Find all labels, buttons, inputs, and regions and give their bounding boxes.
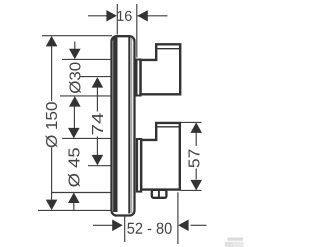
dim D30 tail above — [74, 42, 76, 51]
dim D150 line upper — [51, 45, 53, 101]
dim D30 bottom extension — [60, 95, 112, 97]
svg-text:74: 74 — [90, 112, 107, 135]
bottom handle flange (D45) — [136, 138, 142, 193]
dim 74 bottom extension — [88, 165, 112, 167]
top handle grip seam — [156, 48, 180, 50]
watermark — [225, 237, 244, 247]
bottom handle tab divider — [158, 190, 160, 198]
arrow 16 left — [106, 10, 117, 21]
dim 52-80 tail right — [191, 224, 207, 226]
dim D150 top extension — [42, 35, 112, 37]
dim D30-D45 connector line — [73, 106, 75, 129]
dim 57 top extension — [181, 121, 202, 123]
arrow 52-80 right — [112, 220, 123, 232]
dim D150 line lower — [51, 148, 53, 202]
dim 57 bottom extension — [181, 189, 202, 191]
arrow 16 right — [137, 10, 148, 21]
arrow 74 down — [92, 155, 104, 166]
arrow 57 up — [190, 122, 202, 132]
dim 16 tail left — [88, 15, 107, 17]
bottom handle safety tab — [152, 190, 167, 198]
arrow D150 down — [46, 200, 58, 211]
plate front face shading — [131, 38, 133, 213]
dim 57 line upper — [195, 132, 197, 147]
dim D45 bottom extension — [52, 192, 111, 194]
arrow D30 up — [69, 96, 81, 107]
arrow 52-80 left — [178, 220, 189, 232]
svg-text:52 - 80: 52 - 80 — [127, 221, 173, 238]
dim 57 line lower — [195, 169, 197, 180]
svg-text:57: 57 — [187, 148, 204, 168]
svg-text:16: 16 — [116, 9, 132, 25]
svg-text:Ø 45: Ø 45 — [66, 147, 83, 187]
plate back inner line — [113, 37, 117, 212]
dim D45 top extension — [62, 137, 113, 139]
arrow D30 down — [69, 49, 81, 60]
dim D30 top extension — [62, 58, 112, 60]
top handle body and grip — [141, 44, 181, 94]
dim 16 tail right — [138, 15, 168, 17]
bottom handle body and grip — [141, 123, 180, 190]
dim 16 extension line left — [116, 4, 118, 35]
dim 52-80 tail left — [93, 224, 113, 226]
dim 74 line upper — [96, 87, 98, 112]
dim D45 tail below — [73, 202, 75, 211]
escutcheon plate side view — [112, 36, 135, 215]
dim 16 extension line right — [136, 4, 138, 58]
dim 52-80 extension left — [124, 217, 126, 243]
arrow D45 down — [68, 128, 80, 138]
dim 74 top extension — [80, 76, 112, 78]
top handle flange (D30) — [135, 59, 141, 97]
arrow D45 up — [68, 193, 80, 204]
arrow 74 up — [92, 77, 104, 88]
dim D150 bottom extension — [38, 209, 111, 211]
dim 74 line lower — [96, 137, 98, 157]
arrow D150 up — [46, 36, 58, 47]
svg-text:Ø30: Ø30 — [67, 62, 84, 94]
svg-text:Ø 150: Ø 150 — [44, 101, 61, 148]
arrow 57 down — [190, 180, 202, 191]
plate front inner line — [128, 37, 130, 214]
bottom handle grip seam — [156, 126, 180, 128]
dim 52-80 extension right — [177, 192, 179, 244]
